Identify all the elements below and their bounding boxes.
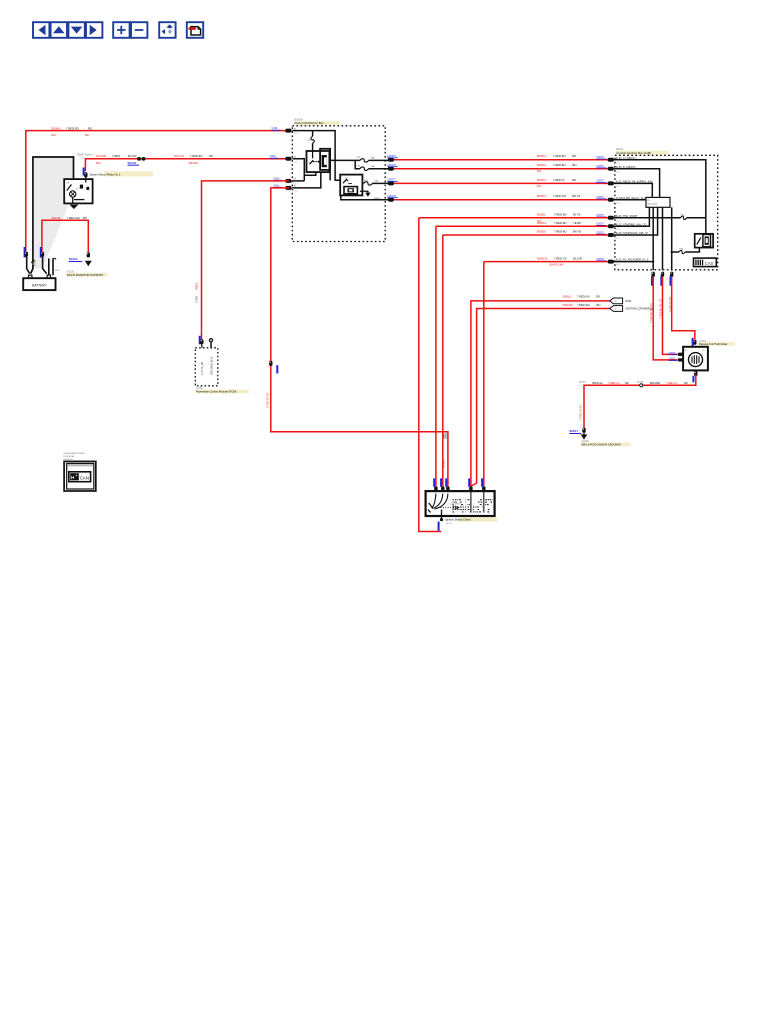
svg-text:CAN: CAN <box>80 475 89 480</box>
svg-text:S0051C: S0051C <box>537 178 547 182</box>
svg-text:7 RED-YE: 7 RED-YE <box>554 256 567 260</box>
svg-text:HIGHLIGHTED WIRE: HIGHLIGHTED WIRE <box>64 453 86 455</box>
svg-text:C1-2: C1-2 <box>294 161 299 163</box>
svg-text:C1-2: C1-2 <box>616 264 621 266</box>
svg-text:30A RD_WH: 30A RD_WH <box>549 264 563 267</box>
svg-text:S00A5L: S00A5L <box>51 216 61 220</box>
svg-text:+: + <box>75 474 77 478</box>
svg-text:C1-2: C1-2 <box>294 133 299 135</box>
svg-text:RD: RD <box>85 133 89 137</box>
svg-text:CAS: CAS <box>705 261 714 266</box>
svg-text:BU-RD: BU-RD <box>128 154 137 158</box>
svg-text:BN: BN <box>83 216 87 220</box>
svg-text:EMS & PCM CHASSIS GROUNDS: EMS & PCM CHASSIS GROUNDS <box>582 443 622 446</box>
svg-text:BATTERY: BATTERY <box>32 283 47 287</box>
svg-text:C1-2: C1-2 <box>616 202 621 204</box>
svg-text:50-LOP: 50-LOP <box>573 256 582 260</box>
svg-text:F35: F35 <box>357 157 362 159</box>
svg-text:C1-2: C1-2 <box>616 229 621 231</box>
svg-text:C1-2: C1-2 <box>616 171 621 173</box>
svg-text:Ignition Switch (Start): Ignition Switch (Start) <box>445 518 471 522</box>
svg-text:S0101: S0101 <box>69 257 78 261</box>
svg-text:F19: F19 <box>681 214 685 216</box>
svg-text:M0087 Starter: M0087 Starter <box>77 154 92 157</box>
svg-text:F36: F36 <box>357 165 362 167</box>
svg-text:ASW: ASW <box>625 299 631 303</box>
svg-text:F87: F87 <box>364 180 369 182</box>
svg-text:S00A2L: S00A2L <box>562 294 572 298</box>
svg-text:(+) BLK: (+) BLK <box>52 270 60 272</box>
svg-text:7 RED RD: 7 RED RD <box>66 126 79 130</box>
svg-text:7 RED-BU: 7 RED-BU <box>554 221 567 225</box>
svg-text:RD: RD <box>572 154 576 158</box>
svg-text:IGNITION_CRANKREQ: IGNITION_CRANKREQ <box>625 307 653 311</box>
svg-text:RD-YE: RD-YE <box>572 194 581 198</box>
svg-text:S0051A: S0051A <box>537 154 547 158</box>
svg-text:7 RED-LT: 7 RED-LT <box>553 178 565 182</box>
svg-text:15A: 15A <box>537 220 542 223</box>
svg-text:30A: 30A <box>537 185 542 188</box>
svg-text:S0051S: S0051S <box>537 194 547 198</box>
svg-text:50-YE: 50-YE <box>573 213 581 217</box>
svg-text:RIGHT RADIATOR SUPPORT: RIGHT RADIATOR SUPPORT <box>67 273 104 277</box>
svg-text:Powertrain Control Module (PCM: Powertrain Control Module (PCM) <box>196 390 236 394</box>
svg-text:RD: RD <box>684 382 688 385</box>
svg-text:15A: 15A <box>371 157 375 160</box>
svg-text:S00A4W: S00A4W <box>562 303 573 307</box>
svg-text:S0705: S0705 <box>637 382 644 384</box>
svg-text:7 RED-BU: 7 RED-BU <box>553 154 566 158</box>
svg-text:C90b: C90b <box>273 177 280 180</box>
svg-text:RD: RD <box>625 382 629 385</box>
svg-text:S0101: S0101 <box>128 161 137 165</box>
svg-text:15A F38: 15A F38 <box>96 154 107 158</box>
svg-text:10A: 10A <box>374 180 378 183</box>
svg-text:C1-2: C1-2 <box>294 191 299 193</box>
svg-text:30A: 30A <box>537 170 542 173</box>
svg-text:C90a: C90a <box>270 155 277 158</box>
svg-text:YE-BU: YE-BU <box>573 221 581 225</box>
svg-text:F39: F39 <box>680 249 684 251</box>
svg-text:C1-2: C1-2 <box>616 238 621 240</box>
svg-text:C1-2: C1-2 <box>616 186 621 188</box>
svg-text:7 RED-LG RD: 7 RED-LG RD <box>580 405 583 420</box>
svg-text:S0101: S0101 <box>569 429 578 433</box>
svg-text:30A F1: 30A F1 <box>374 197 382 200</box>
svg-text:7 RED-BU RD_GN: 7 RED-BU RD_GN <box>660 299 663 319</box>
svg-text:C175 30_RD: C175 30_RD <box>202 361 204 375</box>
svg-text:7 RED-BU: 7 RED-BU <box>190 154 203 158</box>
svg-text:7 RED-GN: 7 RED-GN <box>553 194 566 198</box>
svg-text:7 RED-BU: 7 RED-BU <box>554 230 567 234</box>
svg-text:RD: RD <box>572 178 576 182</box>
svg-text:7 RED-LG: 7 RED-LG <box>666 382 678 385</box>
svg-text:S00A5V: S00A5V <box>51 126 61 130</box>
svg-text:7 RED-WH: 7 RED-WH <box>67 216 80 220</box>
svg-text:7 RED-BU: 7 RED-BU <box>554 213 567 217</box>
svg-text:PHYSICAL: PHYSICAL <box>64 455 76 458</box>
svg-text:S0051XL: S0051XL <box>537 256 549 260</box>
svg-text:15A F76: 15A F76 <box>174 154 185 158</box>
svg-text:WH: WH <box>572 163 577 167</box>
svg-text:BN-YE: BN-YE <box>573 230 581 234</box>
svg-text:F5: F5 <box>308 140 311 142</box>
svg-text:30: 30 <box>615 301 617 303</box>
svg-text:7 RED-GN: 7 RED-GN <box>577 294 590 298</box>
svg-text:30A: 30A <box>51 133 56 137</box>
svg-text:C1-2: C1-2 <box>616 220 621 222</box>
svg-text:Starter Motor Relay No.1: Starter Motor Relay No.1 <box>90 172 121 176</box>
svg-text:B00111B: B00111B <box>650 382 660 385</box>
svg-text:4 BLK: 4 BLK <box>35 260 37 266</box>
svg-text:Power Distribution Box: Power Distribution Box <box>295 121 325 125</box>
svg-text:RD: RD <box>209 154 213 158</box>
svg-text:RD-WH: RD-WH <box>189 161 198 165</box>
svg-text:C0214: C0214 <box>445 523 452 525</box>
svg-text:7 RED-WH: 7 RED-WH <box>577 303 590 307</box>
svg-text:C161: C161 <box>272 127 279 130</box>
svg-text:S0704: S0704 <box>579 382 586 384</box>
svg-text:C1-2: C1-2 <box>616 162 621 164</box>
svg-text:7 RED-BU: 7 RED-BU <box>553 163 566 167</box>
svg-text:30: 30 <box>615 308 617 310</box>
svg-text:LOCK START: LOCK START <box>449 503 462 506</box>
svg-text:S0051L: S0051L <box>537 213 547 217</box>
svg-text:RD: RD <box>88 126 92 130</box>
svg-text:7 RED: 7 RED <box>112 154 120 158</box>
svg-text:S0051K: S0051K <box>537 230 547 234</box>
svg-text:7 RED-YE RD: 7 RED-YE RD <box>669 297 672 312</box>
svg-text:7 RED: 7 RED <box>196 296 199 303</box>
svg-text:StartupCtrl: StartupCtrl <box>648 203 658 206</box>
svg-text:GEN_MOD_KL30: GEN_MOD_KL30 <box>211 356 213 375</box>
svg-text:S0051H: S0051H <box>537 163 547 167</box>
svg-text:7 RED-BU BU_RD: 7 RED-BU BU_RD <box>650 303 653 323</box>
svg-text:C90c: C90c <box>273 184 280 187</box>
svg-text:15A: 15A <box>371 165 375 168</box>
svg-text:7 RED-LG: 7 RED-LG <box>608 382 620 385</box>
svg-text:Passive Anti-Theft Relay: Passive Anti-Theft Relay <box>699 342 728 346</box>
svg-text:Central Junction Box (CJB): Central Junction Box (CJB) <box>616 151 651 155</box>
svg-text:RD: RD <box>596 294 600 298</box>
svg-text:WH: WH <box>596 303 600 307</box>
svg-text:B00111A: B00111A <box>593 382 603 385</box>
svg-text:30A: 30A <box>96 161 101 165</box>
svg-text:B00A2: B00A2 <box>196 282 199 290</box>
svg-text:7 RED-YE RD: 7 RED-YE RD <box>266 393 269 408</box>
